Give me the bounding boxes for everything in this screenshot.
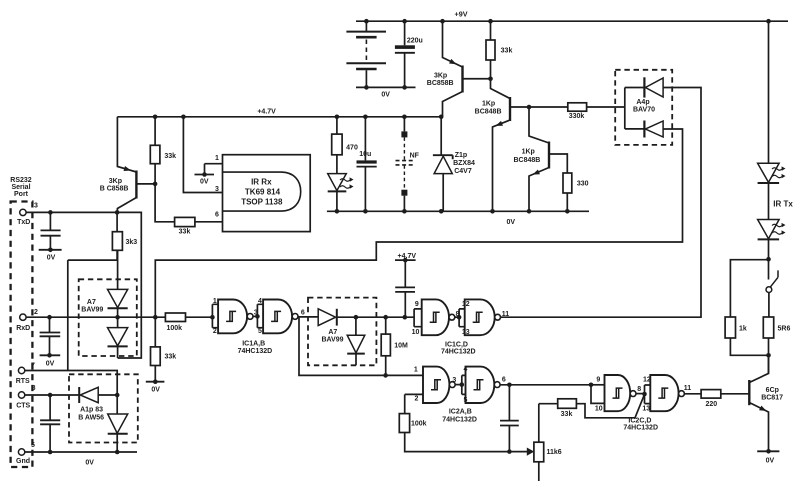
svg-text:74HC132D: 74HC132D <box>442 416 477 423</box>
svg-text:0V: 0V <box>507 219 516 226</box>
svg-text:RxD: RxD <box>16 325 30 332</box>
svg-text:8: 8 <box>637 386 641 393</box>
svg-text:12: 12 <box>462 301 470 308</box>
svg-text:74HC132D: 74HC132D <box>623 425 658 432</box>
svg-text:0V: 0V <box>151 387 160 394</box>
svg-text:RTS: RTS <box>16 378 30 385</box>
svg-text:13: 13 <box>462 329 470 336</box>
svg-text:BC817: BC817 <box>761 395 783 402</box>
svg-text:11k6: 11k6 <box>547 449 562 456</box>
svg-text:1: 1 <box>414 366 418 373</box>
svg-text:220u: 220u <box>407 37 423 44</box>
svg-text:2: 2 <box>213 328 217 335</box>
svg-text:IC2C,D: IC2C,D <box>628 417 651 424</box>
svg-text:0V: 0V <box>766 457 775 464</box>
svg-text:220: 220 <box>705 401 717 408</box>
svg-text:Port: Port <box>14 191 29 198</box>
svg-text:TxD: TxD <box>17 219 30 226</box>
svg-text:1: 1 <box>213 298 217 305</box>
svg-text:33k: 33k <box>179 229 191 236</box>
svg-text:6Cp: 6Cp <box>766 387 779 394</box>
svg-text:0V: 0V <box>200 179 209 186</box>
svg-text:BZX84: BZX84 <box>453 160 475 167</box>
svg-text:A4p: A4p <box>636 99 649 106</box>
svg-text:Gnd: Gnd <box>16 458 30 465</box>
svg-text:C4V7: C4V7 <box>454 168 472 175</box>
svg-text:2: 2 <box>34 309 38 316</box>
svg-text:A7: A7 <box>328 329 337 336</box>
svg-text:11: 11 <box>684 385 692 392</box>
svg-text:RS232: RS232 <box>10 177 32 184</box>
svg-text:12: 12 <box>643 376 651 383</box>
svg-text:330k: 330k <box>569 113 585 120</box>
svg-text:3Kp: 3Kp <box>109 178 122 185</box>
svg-text:IR Rx: IR Rx <box>251 178 272 187</box>
svg-text:3Kp: 3Kp <box>434 72 447 79</box>
svg-text:0V: 0V <box>47 254 56 261</box>
svg-text:+9V: +9V <box>455 10 468 19</box>
svg-text:Z1p: Z1p <box>455 152 467 159</box>
svg-text:0V: 0V <box>46 361 55 368</box>
svg-text:BC848B: BC848B <box>475 109 502 116</box>
svg-text:3: 3 <box>452 377 456 384</box>
svg-text:4: 4 <box>258 298 262 305</box>
svg-text:74HC132D: 74HC132D <box>238 348 273 355</box>
svg-text:1Kp: 1Kp <box>482 100 495 107</box>
svg-text:BAV70: BAV70 <box>633 107 655 114</box>
svg-text:NF: NF <box>410 153 420 160</box>
svg-text:10u: 10u <box>359 151 371 158</box>
svg-text:3: 3 <box>215 186 219 193</box>
svg-text:BC858B: BC858B <box>427 80 454 87</box>
svg-text:33k: 33k <box>501 48 513 55</box>
svg-text:2: 2 <box>414 395 418 402</box>
svg-text:0V: 0V <box>381 92 390 99</box>
svg-text:330: 330 <box>577 180 589 187</box>
svg-text:TSOP 1138: TSOP 1138 <box>241 198 283 207</box>
svg-text:6: 6 <box>215 212 219 219</box>
svg-text:Serial: Serial <box>11 184 30 191</box>
svg-text:7: 7 <box>31 362 35 369</box>
svg-text:+4.7V: +4.7V <box>257 109 276 116</box>
svg-text:5: 5 <box>31 442 35 449</box>
svg-text:10M: 10M <box>394 342 408 349</box>
svg-text:CTS: CTS <box>16 403 30 410</box>
svg-text:8: 8 <box>456 311 460 318</box>
svg-text:5: 5 <box>258 328 262 335</box>
svg-text:IC2A,B: IC2A,B <box>449 409 472 416</box>
svg-text:B C858B: B C858B <box>100 186 129 193</box>
svg-text:4: 4 <box>463 366 467 373</box>
svg-text:6: 6 <box>502 376 506 383</box>
svg-text:5: 5 <box>463 397 467 404</box>
svg-text:33k: 33k <box>164 353 176 360</box>
svg-text:10: 10 <box>412 329 420 336</box>
svg-text:0V: 0V <box>85 460 94 467</box>
svg-text:33k: 33k <box>164 153 176 160</box>
svg-text:IC1A,B: IC1A,B <box>242 340 265 347</box>
svg-text:6: 6 <box>301 309 305 316</box>
svg-text:1Kp: 1Kp <box>522 148 535 155</box>
svg-text:100k: 100k <box>167 325 183 332</box>
svg-text:8: 8 <box>32 385 36 392</box>
svg-text:BC848B: BC848B <box>513 157 540 164</box>
svg-text:1k: 1k <box>739 326 747 333</box>
svg-text:BAV99: BAV99 <box>321 337 343 344</box>
svg-text:11: 11 <box>502 311 510 318</box>
svg-text:B AW56: B AW56 <box>78 414 104 421</box>
svg-text:74HC132D: 74HC132D <box>441 348 476 355</box>
svg-text:33k: 33k <box>561 411 573 418</box>
svg-text:470: 470 <box>346 144 358 151</box>
svg-text:TK69 814: TK69 814 <box>245 188 281 197</box>
svg-text:9: 9 <box>596 376 600 383</box>
svg-text:A1p 83: A1p 83 <box>80 407 103 414</box>
svg-text:1: 1 <box>215 155 219 162</box>
svg-text:A7: A7 <box>87 299 96 306</box>
svg-text:3k3: 3k3 <box>125 239 137 246</box>
svg-text:100k: 100k <box>411 420 427 427</box>
svg-text:5R6: 5R6 <box>778 326 791 333</box>
svg-text:IR Tx: IR Tx <box>773 200 793 209</box>
svg-text:10: 10 <box>595 405 603 412</box>
svg-text:13: 13 <box>642 405 650 412</box>
svg-text:9: 9 <box>415 301 419 308</box>
svg-text:BAV99: BAV99 <box>81 306 103 313</box>
svg-text:3: 3 <box>34 203 38 210</box>
svg-text:IC1C,D: IC1C,D <box>445 341 468 348</box>
